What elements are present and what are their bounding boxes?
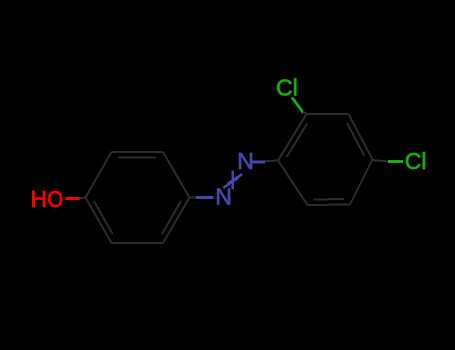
double bond inner line upper-left right ring <box>287 123 308 156</box>
bond N-C1' carbon half <box>265 160 278 163</box>
double bond inner line upper-right right ring <box>347 123 364 156</box>
svg-text:Cl: Cl <box>405 148 427 174</box>
wire edge C6'-C1' right ring <box>278 161 308 206</box>
left benzene ring (phenol ring) C-C bonds <box>86 152 190 243</box>
bond C4'-Cl green half <box>388 160 403 163</box>
bond C4-N carbon half <box>190 197 197 199</box>
wire edge C1-C2 left ring <box>86 152 112 198</box>
double bond inner line lower-right left ring <box>162 201 181 234</box>
azo N=N diagonal line 2 <box>223 178 237 188</box>
right benzene ring (dichlorophenyl) C-C bonds <box>278 114 373 205</box>
double bond inner line bottom right ring <box>313 198 344 200</box>
svg-text:H: H <box>31 186 48 212</box>
svg-text:N: N <box>237 148 254 174</box>
wire edge C4-C5 left ring <box>163 198 190 244</box>
bond O-C1 carbon half <box>80 197 86 200</box>
wire edge C4'-C5' right ring <box>350 160 373 205</box>
wire edge C2-C3 left ring top <box>112 151 164 153</box>
azo N=N vertical stroke <box>232 170 235 189</box>
svg-text:O: O <box>47 186 63 212</box>
bond C4-N blue half <box>196 196 214 199</box>
bond O-C1 red half <box>66 197 80 200</box>
wire edge C5'-C6' right ring bottom <box>308 204 351 207</box>
bond C2'-Cl carbon part <box>303 112 307 115</box>
svg-text:Cl: Cl <box>276 75 298 101</box>
double bond inner line lower-left left ring <box>94 201 113 234</box>
wire edge C2'-C3' right ring top <box>307 113 349 115</box>
azo N=N diagonal line 1 <box>228 174 243 184</box>
wire edge C5-C6 left ring bottom <box>112 242 164 244</box>
wire edge C6-C1 left ring <box>86 198 112 244</box>
bond C2'-Cl green part <box>292 98 304 114</box>
bond C4'-Cl carbon half <box>373 160 389 162</box>
double bond inner line top left ring <box>119 157 156 159</box>
bond N-C1' blue half <box>252 161 265 164</box>
wire edge C3'-C4' right ring <box>349 114 373 160</box>
wire edge C3-C4 left ring <box>163 152 190 198</box>
svg-text:N: N <box>215 184 232 210</box>
wire edge C1'-C2' right ring <box>278 114 307 161</box>
